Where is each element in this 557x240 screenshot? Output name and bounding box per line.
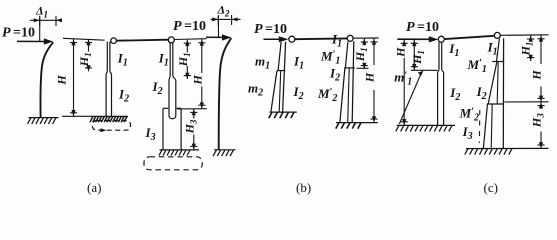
svg-text:H: H	[394, 47, 408, 58]
svg-text:(b): (b)	[296, 180, 311, 195]
svg-text:M′2: M′2	[317, 86, 337, 104]
svg-text:I2: I2	[329, 66, 340, 84]
svg-text:I1: I1	[331, 32, 342, 50]
svg-text:P: P	[254, 22, 263, 37]
svg-text:H1: H1	[176, 52, 192, 67]
svg-text:m′1: m′1	[394, 70, 412, 88]
svg-text:(a): (a)	[87, 180, 101, 195]
svg-text:I2: I2	[476, 84, 487, 102]
svg-text:H1: H1	[519, 42, 535, 57]
svg-text:I1: I1	[487, 40, 498, 58]
svg-text:H1: H1	[353, 47, 369, 62]
svg-text:P: P	[406, 20, 415, 35]
svg-text:M′2: M′2	[459, 106, 479, 124]
svg-text:I2: I2	[118, 87, 129, 105]
svg-text:=10: =10	[184, 19, 206, 34]
svg-text:I1: I1	[448, 41, 459, 59]
svg-text:H3: H3	[530, 113, 546, 128]
svg-text:H: H	[55, 75, 69, 86]
svg-text:I1: I1	[158, 51, 169, 69]
svg-text:I3: I3	[145, 125, 156, 143]
svg-text:M′1: M′1	[320, 49, 340, 67]
svg-text:I3: I3	[462, 124, 473, 142]
svg-text:=10: =10	[417, 20, 439, 35]
svg-text:H1: H1	[77, 52, 93, 67]
svg-text:I1: I1	[117, 51, 128, 69]
svg-text:m2: m2	[248, 81, 263, 99]
svg-text:H: H	[530, 70, 544, 81]
svg-text:H: H	[190, 74, 204, 85]
svg-text:I2: I2	[293, 84, 304, 102]
svg-text:(c): (c)	[484, 180, 498, 195]
svg-text:I1: I1	[293, 54, 304, 72]
svg-text:Δ1: Δ1	[35, 4, 48, 20]
svg-text:P: P	[173, 19, 182, 34]
svg-text:H1: H1	[410, 50, 426, 65]
svg-text:m1: m1	[255, 54, 270, 72]
svg-text:P: P	[2, 26, 11, 41]
svg-text:I2: I2	[449, 85, 460, 103]
svg-text:M′1: M′1	[467, 57, 487, 75]
svg-text:H3: H3	[182, 119, 198, 134]
svg-text:=10: =10	[265, 22, 287, 37]
svg-text:=10: =10	[13, 26, 35, 41]
svg-text:H: H	[363, 72, 377, 83]
svg-text:I2: I2	[152, 79, 163, 97]
